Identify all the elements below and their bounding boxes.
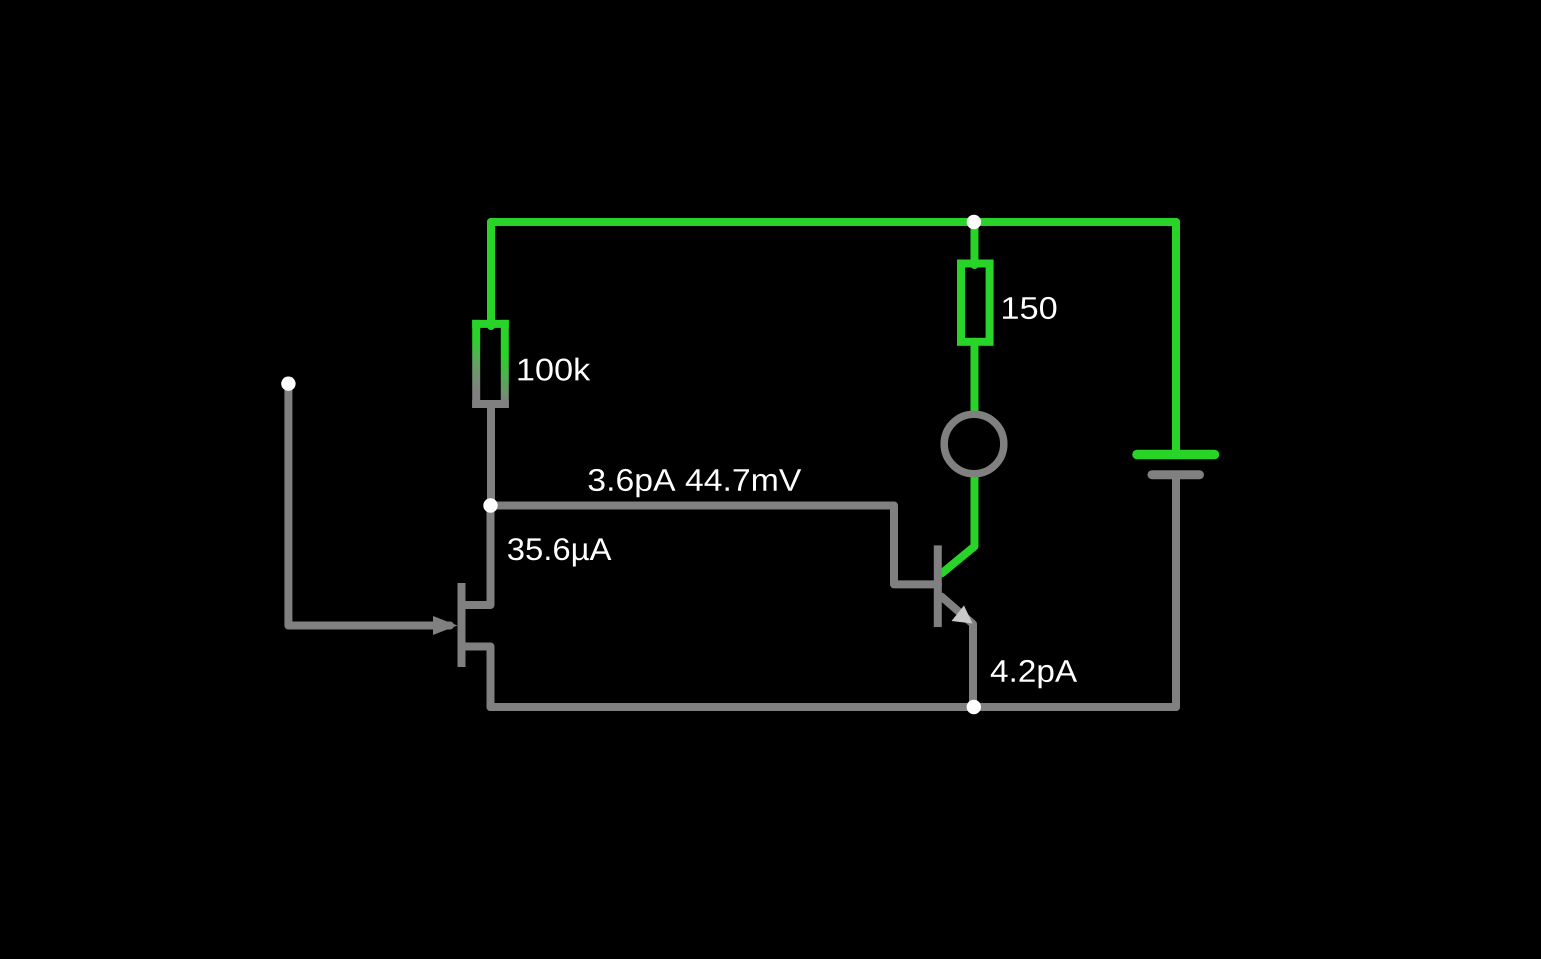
Q1 gate arrow [433,616,458,635]
wire: R2 top lead [971,222,979,265]
transistor Q2 (NPN) [938,472,975,707]
Q1 channel bar [458,583,466,667]
battery positive plate [1137,450,1215,460]
Q2 emitter lead [942,597,974,707]
label emitter current 4.2pA [991,660,1077,688]
Q1 source lead [462,647,491,708]
battery negative plate [1152,470,1200,479]
wire: gate input from post [288,384,450,626]
wire: base feed from node A to Q2 base [491,506,938,585]
resistor R2 [961,264,990,342]
battery V1 [1137,455,1215,475]
wire: ground bottom rail [491,703,1177,711]
Q1 drain lead [462,506,491,606]
Q2 base bar [934,545,942,627]
wire: right rail to battery + [1172,222,1180,452]
wire: R1 top lead [487,222,495,326]
label R1 value 100k [519,358,591,381]
wire: R1 bottom lead [487,404,495,506]
node: top rail / R2 junction [967,215,981,229]
transistor Q1 (N-JFET) [433,506,491,708]
node: gate input post [281,377,295,391]
resistor R1 [472,320,509,408]
node A: R1 / Q1 drain / base wire junction [483,498,497,512]
Q2 collector lead [942,472,975,574]
label R2 value 150 [1003,297,1056,319]
node: emitter / ground rail junction [967,700,981,714]
Q2 emitter arrow [952,606,973,624]
wire: battery - to ground rail [1172,475,1180,707]
ammeter AM1 [944,414,1004,474]
label drain current 35.6µA [508,538,611,566]
wire: +V top rail [491,218,1176,226]
wire: R2 to ammeter [971,342,979,416]
label wire info 3.6pA 44.7mV [589,469,802,497]
